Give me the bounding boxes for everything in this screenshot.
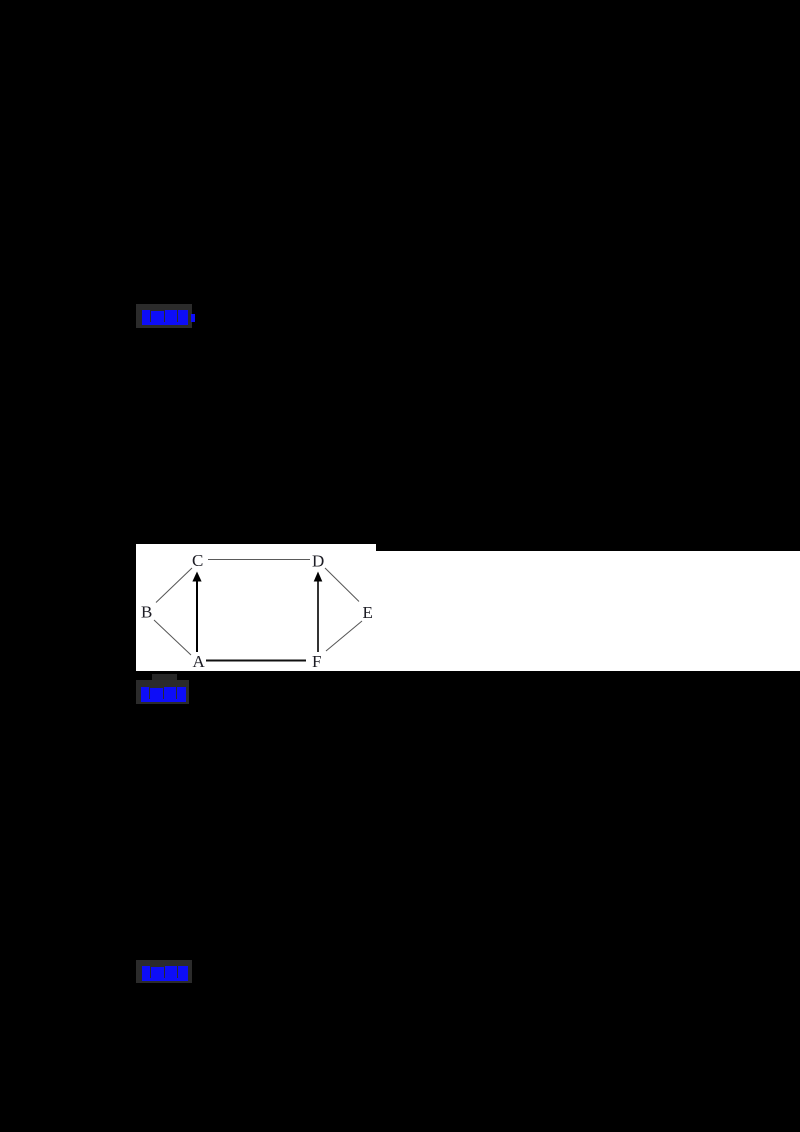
- edge C-D: [208, 559, 310, 561]
- edge E-F: [326, 621, 362, 651]
- arrow F to D: [317, 580, 319, 652]
- svg-text:C: C: [192, 551, 203, 570]
- arrow A to C: [196, 580, 198, 652]
- svg-text:D: D: [312, 552, 324, 571]
- hyperlink 3 highlight box: [136, 960, 192, 983]
- edge D-E: [325, 568, 359, 602]
- white diagram box: [136, 544, 376, 671]
- svg-text:B: B: [141, 603, 152, 622]
- hyperlink 3 blue text blob: [136, 960, 198, 984]
- hyperlink 2 highlight box: [136, 680, 189, 704]
- graph diagram svg: [136, 544, 376, 671]
- white band full width: [136, 551, 800, 671]
- hyperlink 2 step notch: [152, 674, 177, 681]
- node labels: [141, 551, 373, 671]
- hyperlink 1 highlight box: [136, 304, 192, 328]
- svg-text:F: F: [312, 652, 321, 671]
- svg-text:E: E: [363, 603, 373, 622]
- edge B-C: [156, 568, 192, 603]
- hyperlink 1 blue text blob: [136, 304, 198, 328]
- edge A-F: [206, 660, 306, 662]
- edge B-A: [154, 620, 191, 655]
- hyperlink 2 blue text blob: [136, 680, 196, 706]
- svg-text:A: A: [193, 652, 206, 671]
